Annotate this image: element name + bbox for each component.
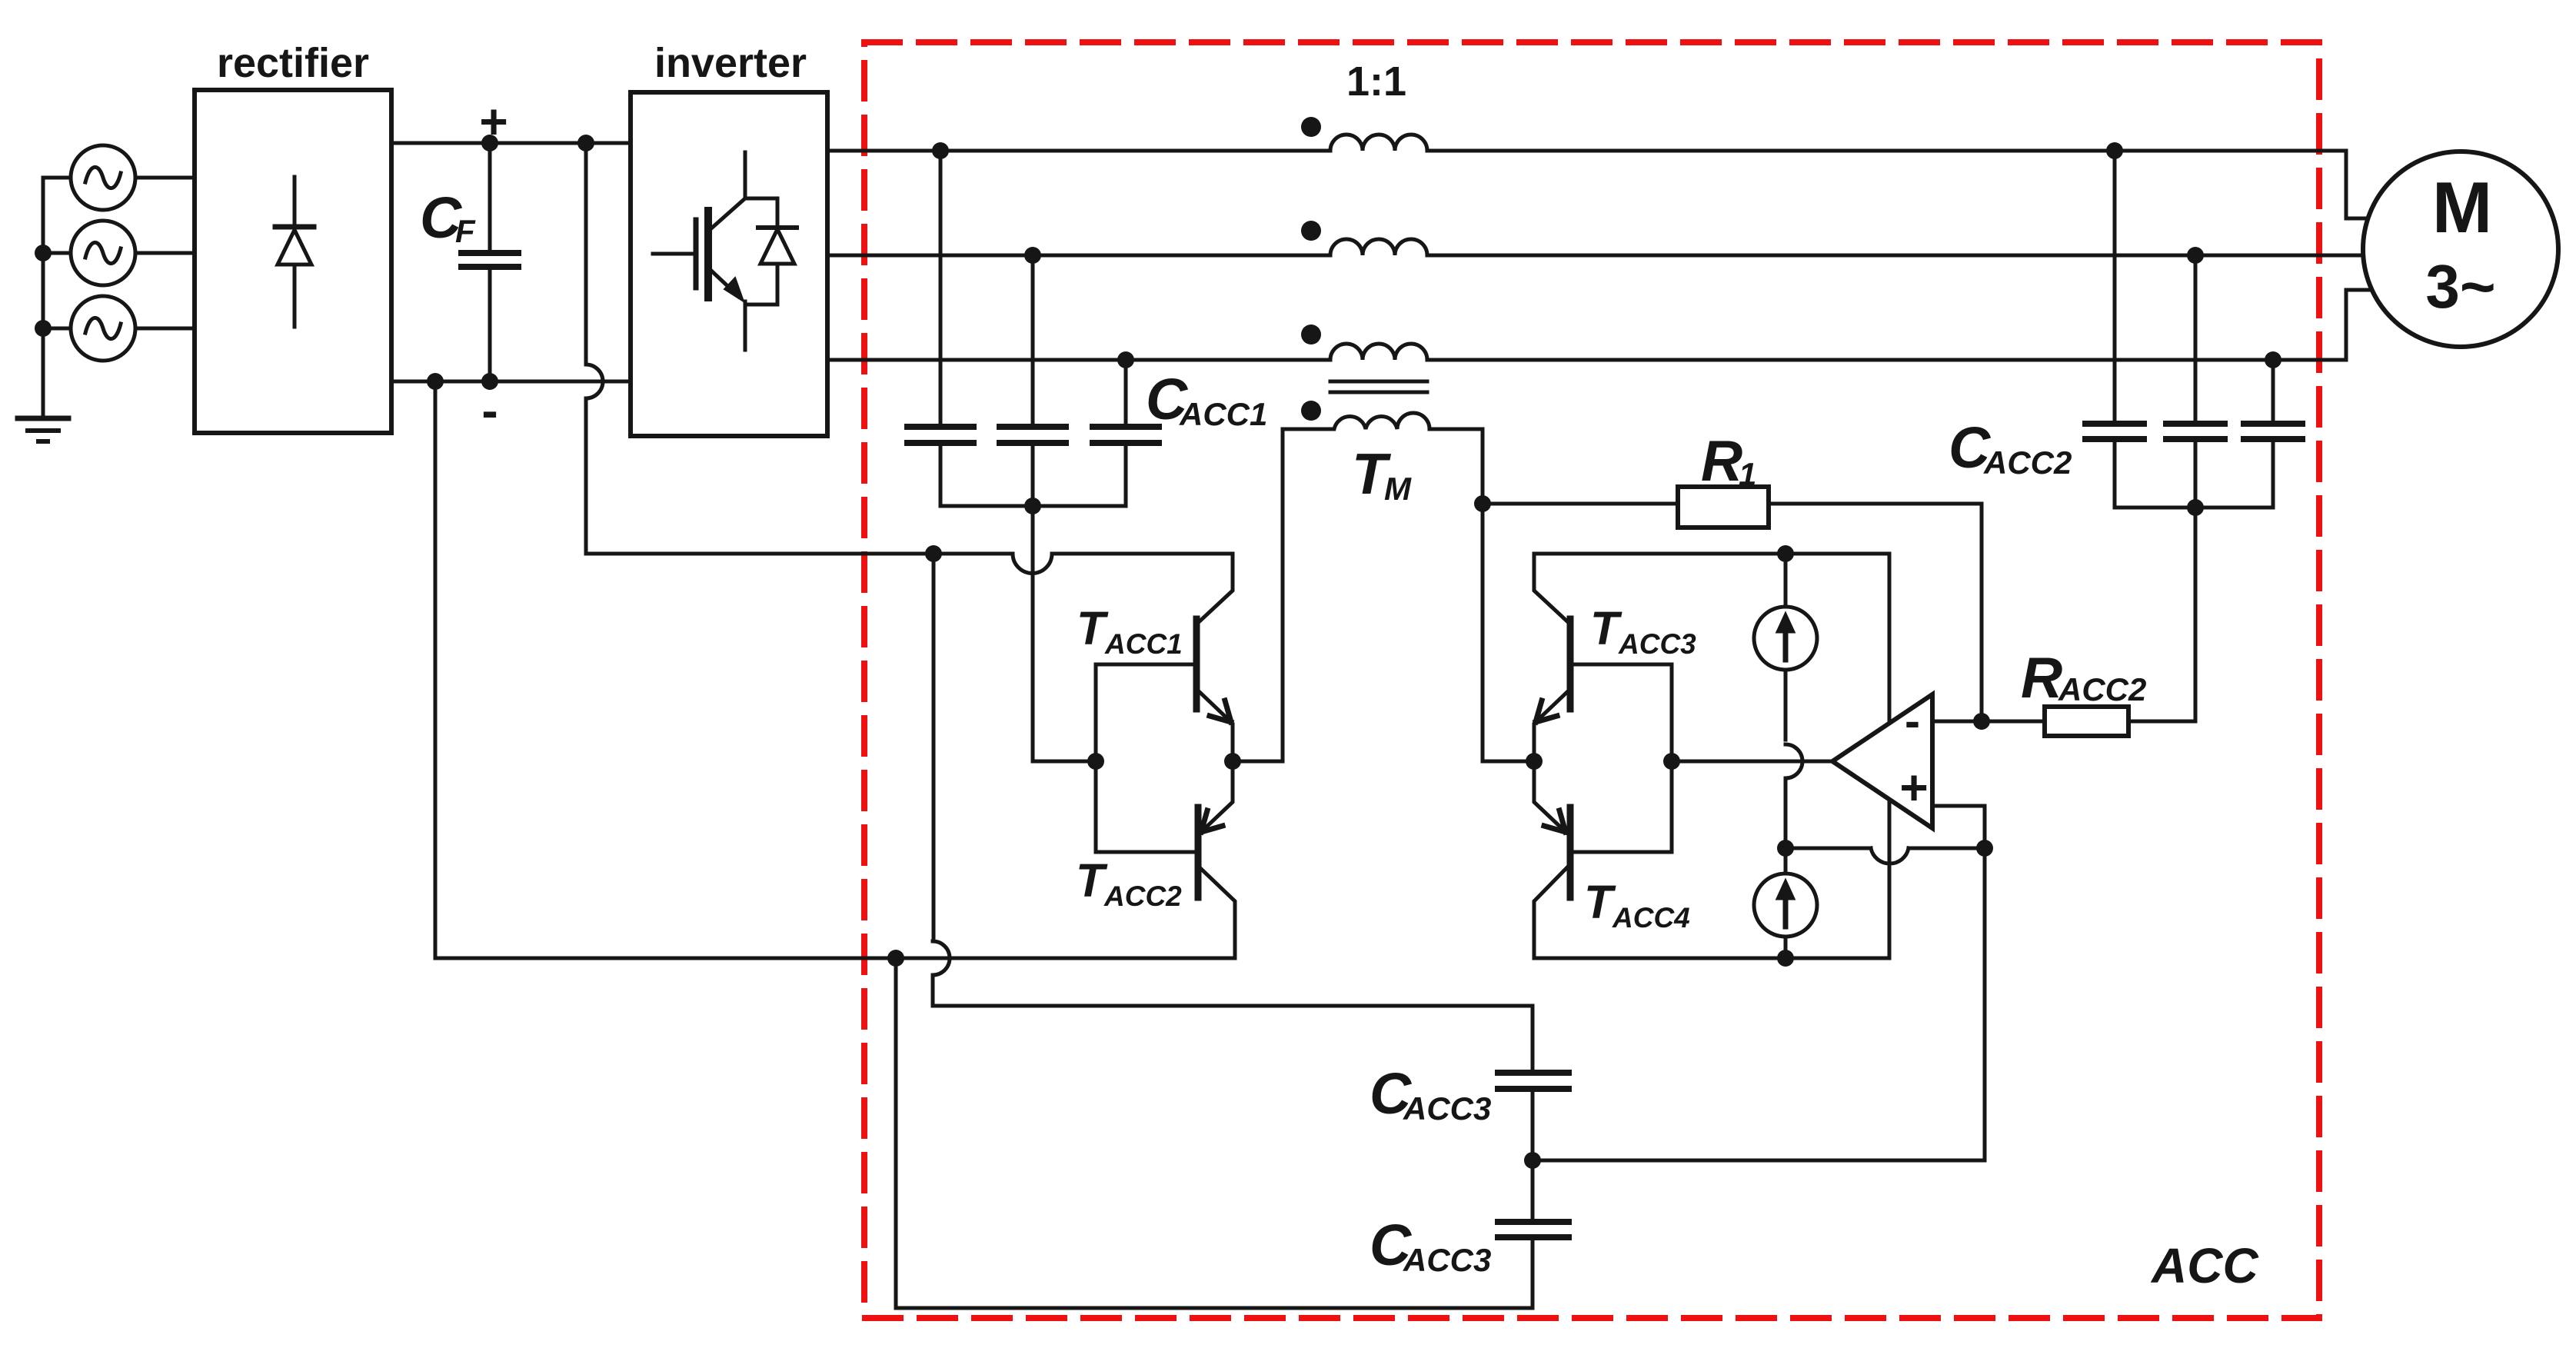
svg-text:-: - [481,383,498,438]
node CS2 bottom [1777,950,1794,967]
inductor LB [1330,239,1427,255]
wire CACC1 bottom bus [940,504,1126,508]
choke core [1330,381,1427,392]
wire DC+ rail to TACC1 collector (hop over x1343) [586,554,1233,574]
node CF+ [481,135,498,151]
capacitor CACC1-b [1031,255,1035,506]
capacitor CACC2-b [2194,255,2198,508]
capacitor CACC3-b [1531,1160,1535,1308]
wire DC- rail to TACC2 collector [435,381,1235,958]
svg-text:M: M [2432,167,2492,248]
wire DC+ drop with hop over DC- [586,143,603,554]
wire V3 leads [43,327,195,331]
node CF- [481,373,498,390]
transistor TACC1 [1200,554,1233,621]
node DC+ tap [577,135,594,151]
winding dot TM [1301,401,1321,421]
current source I1 [1754,607,1817,670]
wire TACC1/2 base rail [1094,664,1098,852]
AC source V1 [71,145,135,210]
wire CS1 hop over opamp out [1786,744,1802,848]
transformer TM winding [1283,413,1483,429]
svg-text:ACC2: ACC2 [2058,671,2146,707]
svg-text:T: T [1590,602,1622,654]
svg-text:ACC: ACC [2150,1238,2258,1293]
svg-text:+: + [1899,760,1928,815]
capacitor CACC1-c [1124,360,1128,506]
wire TM left lead [1233,429,1283,761]
wire phase B to motor [1427,254,2365,258]
wire TM right lead [1483,429,1534,761]
wire TACC4 collector rail [1534,957,1889,960]
wire DC- [391,380,631,384]
svg-text:1: 1 [1739,456,1756,492]
svg-text:ACC3: ACC3 [1403,1090,1491,1127]
svg-text:T: T [1077,602,1109,654]
node CACC2-c top [2265,351,2281,368]
node CS1 top [1777,545,1794,562]
svg-text:ACC3: ACC3 [1618,628,1696,660]
node plus input [1976,840,1993,857]
svg-text:rectifier: rectifier [217,40,369,86]
svg-text:T: T [1076,854,1108,907]
diode D1 (inside rectifier) [293,177,297,327]
transistor TACC2 [1203,761,1233,830]
node CACC1-a top [932,142,949,159]
wire CACC3 top branch (hop over y1246) [933,554,1533,1006]
svg-text:T: T [1584,876,1616,928]
ground [18,416,68,421]
svg-text:ACC2: ACC2 [1103,880,1182,912]
AC source V2 [71,221,135,285]
node neutral-V2 [35,245,52,261]
node DC+ rail tap [925,545,942,562]
resistor RACC2 [2045,707,2128,736]
svg-text:1:1: 1:1 [1346,58,1406,105]
svg-text:ACC2: ACC2 [1983,444,2072,481]
node emitter junction left [1224,753,1241,770]
rectifier block [195,90,391,433]
svg-text:-: - [1905,695,1920,747]
wire phase B [827,254,1330,258]
capacitor CACC2-c [2271,360,2275,508]
freewheel diode [776,198,780,305]
wire phase A to motor [1427,151,2368,218]
svg-text:ACC4: ACC4 [1612,902,1690,934]
capacitor CACC2-a [2113,151,2117,508]
wire CACC2 bottom bus [2115,506,2273,510]
capacitor CACC1-a [939,151,943,506]
wire phase C [827,358,1330,362]
svg-text:ACC1: ACC1 [1104,628,1183,660]
wire plus to CACC3 mid [1533,848,1985,1160]
node base rail left [1087,753,1104,770]
ACC boundary dashed box [864,42,2319,1318]
AC source V3 [71,296,135,361]
inductor LA (1:1 choke phase A) [1330,135,1427,151]
node neutral-V3 [35,320,52,337]
wire right vertical rail [1888,554,1892,958]
node base rail right [1663,753,1680,770]
node CACC2 bus [2187,499,2204,516]
node CACC3 mid [1524,1152,1541,1169]
svg-text:F: F [455,213,476,249]
node plus-feed left [1777,840,1794,857]
node CACC2-a top [2106,142,2123,159]
node TM-R1 tap [1474,495,1491,512]
motor M [2363,151,2558,347]
winding dot phase C [1301,325,1321,344]
wire neutral bus [42,178,45,418]
transistor TACC3 [1534,554,1567,621]
node DC- tap [427,373,444,390]
transistor TACC4 [1534,761,1563,830]
wire RACC2 right [2128,508,2195,721]
wire plus feed (hop over x2457) [1786,848,1985,864]
wire DC+ [391,141,631,145]
wire minus input [1932,720,2045,724]
wire V2 leads [43,251,195,255]
winding dot phase A [1301,117,1321,137]
node minus input [1973,713,1990,730]
wire base drive left [1033,506,1096,761]
wire CACC3 bottom return [896,958,1533,1308]
IGBT symbol [653,252,694,256]
capacitor CF [488,143,492,381]
node CACC1-c top [1117,351,1134,368]
svg-text:M: M [1384,471,1412,507]
wire plus input [1932,806,1985,848]
wire TACC3 collector rail [1534,552,1889,556]
node CACC1 bus [1024,498,1041,514]
node CACC2-b top [2187,247,2204,264]
wire phase A [827,149,1330,153]
wire TACC3/4 base rail [1670,664,1674,852]
op-amp U1 [1832,694,1932,828]
svg-text:+: + [479,94,508,149]
svg-text:ACC1: ACC1 [1179,396,1267,432]
winding dot phase B [1301,221,1321,241]
svg-text:R: R [1701,428,1742,493]
wire opamp output to bases [1672,760,1832,764]
svg-text:3~: 3~ [2425,252,2495,321]
wire V1 leads [43,176,195,180]
node DC- rail tap [887,950,904,967]
capacitor CACC3-a [1531,1006,1535,1160]
node emitter junction right [1526,753,1543,770]
node CACC1-b top [1024,247,1041,264]
svg-text:ACC3: ACC3 [1403,1242,1491,1278]
wire phase C to motor [1427,290,2368,360]
inductor LC [1330,344,1427,360]
svg-text:R: R [2021,645,2062,710]
resistor R1 [1678,487,1769,528]
wire R1 feedback [1483,504,1982,721]
inverter block [631,92,827,436]
current source I2 [1754,874,1817,937]
svg-text:inverter: inverter [654,40,807,86]
